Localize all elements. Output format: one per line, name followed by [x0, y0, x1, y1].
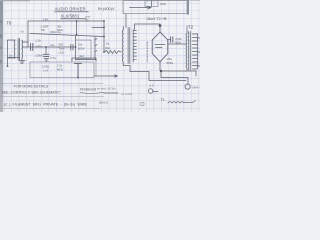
power supply box (top right rectangle) [123, 1, 187, 14]
box coupling network [30, 62, 94, 78]
wire interstage top feed [125, 14, 127, 28]
svg-text:+3v4 /: +3v4 / [192, 85, 200, 89]
svg-text:AUDIO DRIVER: AUDIO DRIVER [55, 7, 86, 12]
svg-text:100k: 100k [160, 2, 167, 6]
capacitor snubber [171, 37, 173, 43]
svg-text:1 uF: 1 uF [43, 69, 49, 73]
transformer interstage core [128, 28, 130, 64]
wire heater drop [161, 71, 188, 84]
svg-text:Gn: Gn [21, 30, 25, 34]
resistor bleeder bracket [72, 58, 96, 61]
left scan edge [0, 0, 3, 112]
title underline 2 [61, 18, 87, 20]
capacitor inside coupling box [75, 64, 82, 78]
wire cathode down [159, 62, 161, 71]
svg-text:mic: mic [50, 43, 55, 47]
transformer T1 core [18, 39, 20, 61]
svg-text:5881: 5881 [167, 61, 174, 65]
tube V6 grid dashed lead [146, 42, 148, 62]
svg-text:6L6/5881: 6L6/5881 [61, 14, 80, 19]
node grid cap blob [159, 24, 162, 27]
svg-text:(2w): (2w) [79, 54, 84, 58]
rectifier sub-box divider [151, 1, 153, 7]
box tone network [76, 40, 92, 59]
wire grid resistor vertical [75, 36, 77, 60]
wire tap into drop [92, 27, 104, 29]
wire T2 bottom lead [186, 68, 188, 71]
rectifier sub-box inside supply [145, 1, 158, 7]
svg-text:T6: T6 [7, 21, 13, 26]
transformer T1 right winding [21, 40, 24, 58]
wire input coupling vertical [27, 21, 29, 47]
wire grid cap feed [135, 24, 161, 32]
svg-text:SEE: CONTROL F BAS SCHEMATIC”: SEE: CONTROL F BAS SCHEMATIC” [2, 90, 62, 94]
svg-text:vol: vol [85, 17, 89, 21]
dash note line [104, 92, 118, 94]
wire network bottom [76, 59, 96, 61]
node cathode junction [160, 70, 162, 72]
svg-text:2.2m: 2.2m [50, 56, 57, 60]
power supply box heavy right edge [187, 0, 189, 14]
resistor plate 1k [104, 50, 121, 53]
capacitor input [31, 44, 33, 51]
wire cathode tap [45, 47, 47, 54]
svg-text:36oV T2 +B: 36oV T2 +B [147, 17, 168, 21]
svg-text:T3: T3 [161, 98, 165, 102]
socket pilot circle B [148, 89, 152, 93]
svg-text:20kΩ 2w: 20kΩ 2w [50, 30, 62, 34]
svg-text:2.2k: 2.2k [36, 39, 42, 43]
svg-text:100k: 100k [36, 45, 43, 49]
note preferred underline [80, 92, 104, 93]
graph grid [0, 0, 200, 112]
wire plate to output transformer [168, 43, 186, 45]
ruled line bottom [0, 108, 100, 110]
wire heater stub [8, 57, 20, 59]
svg-text:500V: 500V [78, 47, 85, 51]
wire divider vertical [95, 58, 97, 76]
svg-text:wr and -(6.3v): wr and -(6.3v) [97, 87, 116, 91]
paper shading [0, 0, 200, 112]
ruled line upper [0, 83, 103, 85]
wire interstage primary top [122, 27, 124, 31]
wire cathode return long [161, 71, 196, 76]
svg-text:(25M): (25M) [36, 54, 43, 58]
top scan edge [0, 0, 200, 1]
svg-text:140: 140 [43, 17, 48, 21]
wire T1 primary leads [8, 40, 16, 66]
transformer interstage right winding ladder [133, 30, 136, 63]
ruled line lower [0, 96, 104, 98]
wire snubber lead [168, 39, 171, 41]
transformer interstage left winding [121, 30, 124, 62]
ground input [19, 58, 25, 64]
wire interstage bottom stair [123, 62, 186, 81]
transformer T2 secondary taps [192, 34, 200, 70]
transformer T2 core [189, 32, 191, 71]
tube V6 envelope hexagon [152, 32, 168, 62]
wire signal line [22, 46, 76, 48]
potentiometer vertical [95, 37, 97, 60]
svg-text:1k: 1k [9, 54, 13, 58]
socket pilot tail [153, 91, 158, 93]
svg-text:(.01): (.01) [59, 51, 65, 55]
svg-text:FOR MORE DETAILS: FOR MORE DETAILS [14, 85, 49, 89]
svg-text:mr w.ll-b: mr w.ll-b [121, 92, 132, 96]
paper background [0, 0, 200, 112]
wire T1 secondary top lead [22, 41, 28, 43]
ground bypass [44, 59, 49, 62]
socket pilot circle C [141, 102, 145, 106]
junction dots [7, 20, 163, 78]
wire B+ arrow [130, 6, 152, 9]
wire bus tie vertical [76, 21, 78, 34]
svg-text:(6v3-d: (6v3-d [99, 101, 108, 105]
title underline 1 [55, 11, 89, 13]
svg-text:T2: T2 [188, 25, 194, 30]
wire bus lower [30, 34, 104, 37]
capacitor bypass [44, 54, 50, 56]
svg-text:(5w): (5w) [105, 46, 110, 50]
tube V6 plate marks [155, 45, 165, 48]
transformer T1 left winding [13, 40, 16, 58]
svg-text:(c:.) FILAMENT MFG PRIVATE - (: (c:.) FILAMENT MFG PRIVATE - (6v-3v) WIR… [4, 103, 88, 107]
wire T2 top lead [186, 26, 188, 33]
svg-text:(.005): (.005) [42, 65, 49, 69]
socket pilot circle A [185, 84, 190, 89]
svg-text:Preferred: Preferred [80, 88, 97, 92]
wire B+ drop vertical [103, 21, 105, 52]
svg-text:450v: 450v [175, 40, 182, 44]
wire output run with arrow [94, 75, 118, 77]
svg-text:6.3: 6.3 [150, 84, 154, 88]
svg-text:1k: 1k [106, 42, 110, 46]
svg-text:MFD: MFD [57, 68, 63, 72]
left edge texture [0, 34, 2, 38]
transformer T2 left winding [185, 33, 188, 68]
svg-text:B+(400)V: B+(400)V [98, 6, 115, 11]
filament coil squiggle [168, 100, 196, 103]
capacitor coupling before box [71, 45, 73, 51]
wire B+ bus upper [28, 20, 104, 22]
svg-text:2.2k: 2.2k [57, 64, 63, 68]
svg-text:70k: 70k [41, 28, 46, 32]
